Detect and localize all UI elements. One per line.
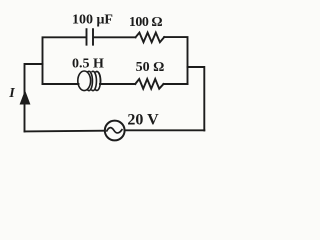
current arrow I head [20,92,29,105]
svg-text:100 Ω: 100 Ω [129,15,163,30]
wire right connector and outer right wire [188,67,205,130]
inductor L1 coil [78,71,101,91]
svg-text:0.5 H: 0.5 H [72,57,104,72]
wire capacitor to resistor 100 [94,36,136,38]
resistor R2 50 ohm zigzag [135,79,163,89]
svg-text:100 μF: 100 μF [72,13,113,28]
svg-text:50 Ω: 50 Ω [136,60,165,75]
wire left connector and outer left wire [25,64,43,131]
wire bottom left to source [25,130,105,133]
wire source to bottom right [125,129,205,131]
wire resistor to box right edge, box right edge down [164,37,187,84]
resistor R1 100 ohm zigzag [136,33,165,43]
ac source sine wave [107,128,122,133]
wire top branch left (box left edge + top wire to capacitor) [43,37,86,84]
svg-text:20 V: 20 V [127,111,159,128]
wire resistor 50 to box right edge [164,83,188,85]
ac source V1 circle [105,121,125,141]
capacitor C1 plates [87,29,94,45]
svg-text:I: I [8,86,15,101]
wire bottom branch left (to inductor) [43,83,79,85]
wire inductor to resistor 50 [100,83,135,85]
